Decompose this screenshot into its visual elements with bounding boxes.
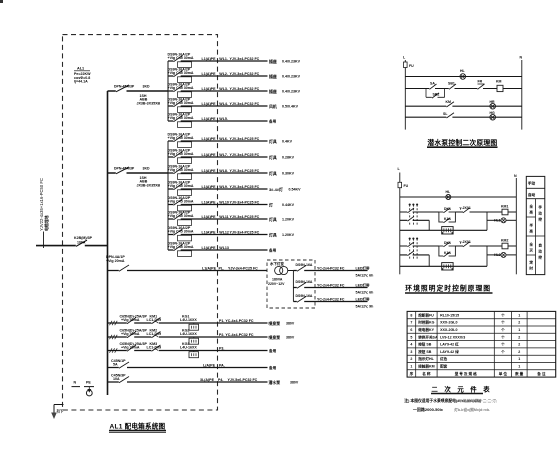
svg-text:配套: 配套: [440, 364, 448, 369]
svg-text:全: 全: [528, 242, 533, 247]
svg-text:0.44KV: 0.44KV: [282, 203, 295, 207]
svg-text:WL10: WL10: [219, 200, 229, 204]
svg-text:5: 5: [410, 335, 412, 339]
svg-text:潜水泵控制二次原理图: 潜水泵控制二次原理图: [427, 138, 497, 147]
svg-text:半: 半: [529, 223, 533, 228]
svg-text:FR: FR: [478, 80, 483, 84]
svg-text:2: 2: [518, 343, 520, 347]
svg-text:N: N: [74, 380, 77, 384]
svg-text:2: 2: [518, 350, 520, 354]
svg-text:L4U-16XX: L4U-16XX: [180, 346, 197, 350]
svg-text:L1(A)PE: L1(A)PE: [202, 87, 217, 91]
svg-text:SB1: SB1: [448, 82, 455, 86]
svg-text:0.5/0.4KV: 0.5/0.4KV: [282, 105, 299, 109]
svg-text:DS9N-16A: DS9N-16A: [296, 294, 313, 298]
svg-text:KM: KM: [446, 100, 452, 104]
svg-text:SB2: SB2: [433, 92, 440, 96]
svg-text:2: 2: [518, 321, 520, 325]
svg-text:L4U-16XX: L4U-16XX: [180, 332, 197, 336]
svg-text:3L(A)PE: 3L(A)PE: [200, 378, 215, 382]
svg-text:1.20KV: 1.20KV: [282, 218, 295, 222]
svg-text:YJV-3x4-PC25 FC: YJV-3x4-PC25 FC: [230, 169, 260, 173]
svg-text:+Vig C45 30mA: +Vig C45 30mA: [168, 245, 194, 249]
svg-text:WL12: WL12: [219, 230, 229, 234]
svg-text:按钮 SB: 按钮 SB: [418, 342, 432, 347]
svg-text:备用: 备用: [268, 119, 277, 124]
svg-text:1: 1: [518, 328, 520, 332]
svg-text:PL.: PL.: [219, 266, 225, 270]
svg-text:YJV-3x4-PC32 FC: YJV-3x4-PC32 FC: [230, 102, 260, 106]
svg-text:HL2: HL2: [494, 253, 501, 257]
svg-text:L1(A)PE: L1(A)PE: [202, 230, 217, 234]
svg-text:5A/12V, 6h: 5A/12V, 6h: [356, 274, 374, 278]
svg-text:DS9N-16A: DS9N-16A: [296, 280, 313, 284]
svg-text:电缆埋地: 电缆埋地: [44, 215, 49, 231]
svg-text:0.54KV: 0.54KV: [289, 188, 302, 192]
svg-text:XXX-2GL0: XXX-2GL0: [440, 321, 457, 325]
svg-text:个: 个: [500, 327, 505, 332]
svg-text:L1(A)PE: L1(A)PE: [202, 185, 217, 189]
svg-text:Ij=44.1A: Ij=44.1A: [74, 80, 88, 84]
svg-text:1: 1: [410, 365, 412, 369]
svg-text:2: 2: [410, 357, 412, 361]
svg-text:指示灯HL: 指示灯HL: [418, 356, 434, 361]
svg-text:风机: 风机: [269, 104, 277, 109]
svg-text:KM1: KM1: [501, 205, 508, 209]
svg-text:L1(A)PE: L1(A)PE: [202, 153, 217, 157]
svg-text:WL8.: WL8.: [219, 169, 228, 173]
svg-text:KA1: KA1: [444, 217, 451, 221]
svg-text:WL5.: WL5.: [219, 117, 228, 121]
svg-text:YC-2x4-PC32 FC: YC-2x4-PC32 FC: [317, 297, 345, 301]
svg-text:1: 1: [518, 313, 520, 317]
svg-text:KM: KM: [496, 80, 502, 84]
svg-text:JX3B-3X35XB: JX3B-3X35XB: [137, 183, 161, 187]
svg-text:一回路2000-50lx: 一回路2000-50lx: [413, 406, 444, 412]
svg-text:PE: PE: [86, 380, 91, 384]
svg-text:AL1: AL1: [77, 67, 84, 71]
svg-text:PA.: PA.: [219, 363, 225, 367]
svg-text:L1(A)PE: L1(A)PE: [202, 266, 217, 270]
svg-text:+Vig C45 30mA: +Vig C45 30mA: [168, 168, 194, 172]
svg-text:YJV-3x4-PC25 FC: YJV-3x4-PC25 FC: [228, 266, 258, 270]
svg-text:亮: 亮: [529, 229, 533, 234]
svg-text:插座: 插座: [269, 74, 277, 79]
svg-text:HR: HR: [490, 100, 496, 104]
svg-text:L(A)PE: L(A)PE: [203, 363, 216, 367]
svg-text:+Vig C45 30mA: +Vig C45 30mA: [168, 101, 194, 105]
svg-text:HG: HG: [490, 111, 496, 115]
svg-text:单 位: 单 位: [499, 371, 508, 376]
svg-text:L4U-16XX: L4U-16XX: [180, 318, 197, 322]
svg-text:1.20KV: 1.20KV: [282, 233, 295, 237]
svg-text:LAY9-42 红: LAY9-42 红: [440, 342, 459, 347]
svg-text:插座: 插座: [269, 59, 277, 64]
svg-text:JX3B-3X35XB: JX3B-3X35XB: [137, 101, 161, 105]
svg-text:WL4.: WL4.: [219, 102, 228, 106]
svg-text:LC1-D09: LC1-D09: [147, 318, 162, 322]
svg-text:水下灯变: 水下灯变: [269, 261, 284, 266]
svg-text:引下: 引下: [57, 409, 64, 414]
svg-text:2: 2: [518, 335, 520, 339]
svg-text:RL10-15/15: RL10-15/15: [440, 313, 459, 317]
svg-text:个: 个: [500, 342, 505, 347]
svg-text:LV9-12 XXXX/3: LV9-12 XXXX/3: [440, 335, 465, 339]
svg-text:灯具: 灯具: [269, 217, 277, 222]
svg-text:红色: 红色: [440, 356, 448, 361]
svg-text:+Vig 20mA: +Vig 20mA: [106, 259, 125, 263]
svg-text:WL6.: WL6.: [219, 137, 228, 141]
svg-text:LED灯带: LED灯带: [356, 296, 371, 301]
svg-text:AL1 配电箱系统图: AL1 配电箱系统图: [110, 422, 166, 431]
svg-text:6: 6: [410, 328, 412, 332]
svg-text:备 注: 备 注: [536, 371, 546, 376]
svg-text:L1(A)PE: L1(A)PE: [202, 200, 217, 204]
svg-text:10A: 10A: [113, 377, 120, 381]
svg-text:FU: FU: [404, 184, 409, 188]
svg-text:动: 动: [538, 211, 542, 216]
svg-text:灯具: 灯具: [269, 155, 277, 160]
svg-text:全: 全: [528, 204, 533, 209]
svg-text:灭: 灭: [528, 248, 533, 253]
svg-text:灯具: 灯具: [269, 232, 277, 237]
svg-text:3#-4#灯: 3#-4#灯: [269, 187, 283, 192]
svg-text:+Vig C45 30mA: +Vig C45 30mA: [168, 86, 194, 90]
svg-text:熔断器FU: 熔断器FU: [418, 312, 434, 317]
svg-text:YJV22-4x35+1x16-PC50 FC: YJV22-4x35+1x16-PC50 FC: [39, 178, 44, 231]
svg-text:控: 控: [538, 217, 542, 222]
svg-text:定: 定: [528, 260, 533, 265]
svg-text:+Vig 30mA: +Vig 30mA: [121, 332, 140, 336]
svg-text:接触器KM: 接触器KM: [418, 364, 434, 369]
svg-text:YJV-3x4-PC32 FC: YJV-3x4-PC32 FC: [230, 87, 260, 91]
svg-text:7: 7: [410, 321, 412, 325]
svg-text:手: 手: [538, 205, 542, 210]
svg-text:DK1: DK1: [444, 241, 451, 245]
svg-text:L1(A)PE: L1(A)PE: [202, 102, 217, 106]
svg-text:L1(A)PE: L1(A)PE: [202, 169, 217, 173]
svg-text:KA1: KA1: [444, 251, 451, 255]
svg-text:K2B(M)/3P: K2B(M)/3P: [74, 236, 93, 240]
svg-text:+Vig C45 30mA: +Vig C45 30mA: [168, 152, 194, 156]
svg-text:N: N: [514, 174, 517, 178]
svg-text:0.4/0.23KV: 0.4/0.23KV: [282, 90, 301, 94]
svg-text:L1(A)PE: L1(A)PE: [202, 137, 217, 141]
svg-text:WL3.: WL3.: [219, 87, 228, 91]
svg-text:4: 4: [410, 343, 412, 347]
svg-text:数 量: 数 量: [514, 371, 524, 376]
svg-text:自动: 自动: [528, 192, 536, 197]
svg-text:YJV-3x4-PC25 FC: YJV-3x4-PC25 FC: [230, 230, 260, 234]
svg-text:插座: 插座: [269, 89, 277, 94]
svg-text:LAY9-42 绿: LAY9-42 绿: [440, 349, 459, 354]
svg-text:P1. YC-4x4-PC32 FC: P1. YC-4x4-PC32 FC: [219, 319, 254, 323]
svg-text:YJV-3x4-PC25 FC: YJV-3x4-PC25 FC: [230, 200, 260, 204]
svg-text:SA: SA: [430, 82, 435, 86]
svg-text:个: 个: [500, 320, 505, 325]
svg-text:DPN-45A/3P: DPN-45A/3P: [114, 166, 135, 170]
svg-text:P2. YC-4x4-PC32 FC: P2. YC-4x4-PC32 FC: [219, 333, 254, 337]
svg-text:-PE线(接地保护·二·二·汀;: -PE线(接地保护·二·二·汀;: [457, 398, 498, 403]
svg-text:0.28KV: 0.28KV: [282, 156, 295, 160]
svg-text:+Vig C45 30mA: +Vig C45 30mA: [168, 184, 194, 188]
svg-text:控: 控: [538, 255, 542, 260]
svg-text:0.4KV: 0.4KV: [282, 140, 293, 144]
svg-text:3KD: 3KD: [143, 84, 150, 88]
svg-text:DPN-45A/3P: DPN-45A/3P: [114, 84, 135, 88]
svg-text:备用: 备用: [268, 365, 277, 370]
svg-text:个: 个: [500, 334, 505, 339]
svg-text:LC1-D09: LC1-D09: [147, 346, 162, 350]
svg-text:喷泉泵: 喷泉泵: [269, 321, 281, 326]
svg-text:WL11: WL11: [219, 215, 228, 219]
svg-text:WL7.: WL7.: [219, 153, 228, 157]
svg-text:+Vig 30mA: +Vig 30mA: [121, 346, 140, 350]
svg-text:1: 1: [518, 365, 520, 369]
svg-text:180VA: 180VA: [272, 278, 283, 282]
svg-text:转换开关SA: 转换开关SA: [418, 334, 438, 339]
svg-text:+Vig C45 30mA: +Vig C45 30mA: [168, 56, 194, 60]
svg-text:P4.: P4.: [218, 378, 223, 382]
svg-text:自: 自: [538, 243, 542, 248]
svg-text:YC-2x4-PC32 FC: YC-2x4-PC32 FC: [317, 266, 345, 270]
svg-text:HL1: HL1: [494, 218, 501, 222]
svg-text:个: 个: [500, 349, 505, 354]
svg-text:FU: FU: [409, 64, 414, 68]
svg-text:+Vig C45 30mA: +Vig C45 30mA: [168, 214, 194, 218]
svg-text:L1(A)PE: L1(A)PE: [202, 72, 217, 76]
svg-text:YJV-3x4-PC25 FC: YJV-3x4-PC25 FC: [230, 137, 260, 141]
svg-text:WL9.: WL9.: [219, 185, 228, 189]
svg-text:0.4/0.23KV: 0.4/0.23KV: [282, 75, 301, 79]
svg-text:灯b-b设x(照Mx)d:rxb.: 灯b-b设x(照Mx)d:rxb.: [454, 407, 490, 412]
svg-text:+Vig 30mA: +Vig 30mA: [121, 318, 140, 322]
svg-text:名 称: 名 称: [422, 371, 431, 376]
svg-text:动: 动: [538, 249, 542, 254]
svg-text:5A: 5A: [113, 363, 118, 367]
svg-text:备用: 备用: [268, 248, 277, 253]
svg-text:LED灯带: LED灯带: [356, 282, 371, 287]
svg-text:灯: 灯: [269, 202, 273, 207]
svg-text:YJV-3x4-PC32 FC: YJV-3x4-PC32 FC: [230, 57, 260, 61]
svg-text:380V: 380V: [290, 381, 299, 385]
svg-text:WL13: WL13: [219, 246, 229, 250]
svg-text:5A/12V, 6h: 5A/12V, 6h: [356, 291, 374, 295]
svg-text:灯具: 灯具: [269, 171, 277, 176]
svg-text:环境照明定时控制原理图: 环境照明定时控制原理图: [405, 284, 491, 293]
svg-text:时控器KG: 时控器KG: [418, 320, 434, 325]
svg-text:手动: 手动: [528, 181, 536, 186]
svg-text:5A/12V, 9h: 5A/12V, 9h: [356, 305, 374, 309]
svg-text:YJV-3x4-PC25 FC: YJV-3x4-PC25 FC: [230, 185, 260, 189]
svg-text:1: 1: [518, 357, 520, 361]
svg-text:个: 个: [500, 312, 505, 317]
svg-text:+Vig C45 30mA: +Vig C45 30mA: [168, 136, 194, 140]
svg-text:3: 3: [410, 350, 412, 354]
svg-text:L1(A)PE: L1(A)PE: [202, 215, 217, 219]
svg-text:WL1.: WL1.: [219, 57, 228, 61]
svg-text:L1(A)PE: L1(A)PE: [202, 117, 217, 121]
svg-text:备用: 备用: [268, 348, 277, 353]
svg-text:+Vig C45 30mA: +Vig C45 30mA: [168, 71, 194, 75]
svg-text:WL2.: WL2.: [219, 72, 228, 76]
svg-text:+Vig C45 30mA: +Vig C45 30mA: [168, 200, 194, 204]
svg-text:KM2: KM2: [501, 239, 508, 243]
svg-text:+Vig C45 30mA: +Vig C45 30mA: [168, 230, 194, 234]
svg-text:L1(A)PE: L1(A)PE: [202, 57, 217, 61]
svg-text:XXX-2GL0: XXX-2GL0: [440, 328, 457, 332]
svg-text:YC-2x4-PC32 FC: YC-2x4-PC32 FC: [317, 283, 345, 287]
svg-text:L1(A)PE: L1(A)PE: [202, 246, 217, 250]
svg-text:220V~12V: 220V~12V: [268, 282, 285, 286]
svg-text:0.4/0.23KV: 0.4/0.23KV: [282, 60, 301, 64]
svg-text:喷泉泵: 喷泉泵: [269, 335, 281, 340]
svg-text:380V: 380V: [286, 322, 295, 326]
svg-text:亮: 亮: [529, 210, 533, 215]
svg-text:LED灯带: LED灯带: [356, 265, 371, 270]
svg-text:3KD: 3KD: [143, 166, 150, 170]
svg-text:8: 8: [410, 313, 412, 317]
svg-text:型 号 及 规 格: 型 号 及 规 格: [455, 371, 477, 376]
svg-text:序: 序: [410, 371, 414, 376]
svg-text:二 次 元 件 表: 二 次 元 件 表: [431, 385, 492, 394]
svg-text:P3.: P3.: [219, 346, 224, 350]
svg-text:380V: 380V: [286, 336, 295, 340]
svg-text:潜水泵: 潜水泵: [269, 380, 281, 385]
svg-text:时: 时: [529, 266, 533, 271]
svg-text:DS9N-16A: DS9N-16A: [296, 263, 313, 267]
svg-text:0.30KV: 0.30KV: [282, 172, 295, 176]
svg-text:继电器KY: 继电器KY: [418, 327, 434, 332]
svg-text:YJV-3x4-PC25 FC: YJV-3x4-PC25 FC: [230, 215, 260, 219]
svg-text:DK1: DK1: [444, 207, 451, 211]
svg-text:YJV-5x6-PC32 FC: YJV-5x6-PC32 FC: [228, 378, 258, 382]
svg-text:灯具: 灯具: [269, 139, 277, 144]
svg-text:+Vig C45 30mA: +Vig C45 30mA: [168, 116, 194, 120]
svg-text:LC1-D09: LC1-D09: [147, 332, 162, 336]
svg-text:N: N: [520, 56, 523, 60]
svg-text:按钮 SB: 按钮 SB: [418, 349, 432, 354]
svg-text:100A: 100A: [77, 241, 86, 245]
svg-text:YJV-3x4-PC25 FC: YJV-3x4-PC25 FC: [230, 153, 260, 157]
svg-text:YJV-3x4-PC32 FC: YJV-3x4-PC32 FC: [230, 72, 260, 76]
